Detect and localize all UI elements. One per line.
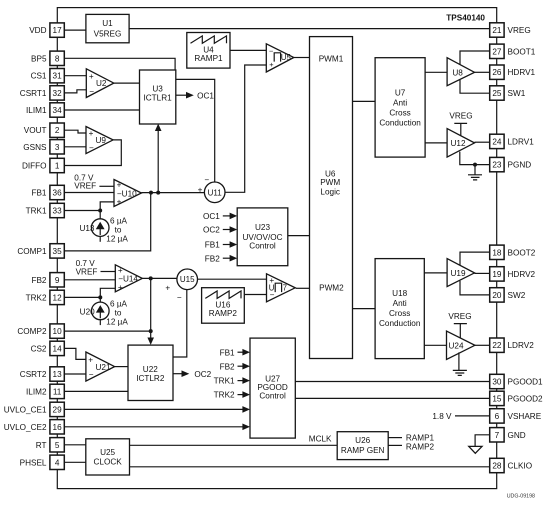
block U18 Anti Cross Conduction xyxy=(375,259,424,359)
svg-text:CS2: CS2 xyxy=(31,344,47,353)
svg-text:U13: U13 xyxy=(79,224,94,233)
pin HDRV2 19 xyxy=(490,267,536,281)
wire TRK2 input arrow to U27 xyxy=(214,391,250,400)
svg-text:2: 2 xyxy=(55,126,60,135)
block U6 PWM Logic xyxy=(310,37,353,359)
pin PGND 23 xyxy=(490,157,532,171)
svg-text:CSRT1: CSRT1 xyxy=(20,89,47,98)
pin VDD 17 xyxy=(29,23,64,37)
driver U12 xyxy=(447,129,474,158)
wire VOUT to U9 + xyxy=(64,130,86,133)
svg-text:26: 26 xyxy=(492,68,502,77)
svg-text:U9: U9 xyxy=(96,136,107,145)
svg-text:ILIM1: ILIM1 xyxy=(26,106,47,115)
wire 1.8V to VSHARE xyxy=(455,415,490,417)
wire U7 to U8 xyxy=(425,71,447,73)
pin FB1 36 xyxy=(31,185,64,199)
svg-text:12 µA: 12 µA xyxy=(106,318,128,327)
pin SW1 25 xyxy=(490,86,526,100)
svg-text:VSHARE: VSHARE xyxy=(508,412,542,421)
svg-text:1.8 V: 1.8 V xyxy=(432,412,452,421)
wire U18 to U19 xyxy=(424,272,447,274)
svg-text:RAMP GEN: RAMP GEN xyxy=(341,446,385,455)
svg-text:6: 6 xyxy=(495,412,500,421)
svg-text:TPS40140: TPS40140 xyxy=(446,14,485,23)
pin PGOOD2 15 xyxy=(490,391,543,405)
wire U8 output to HDRV1 xyxy=(475,71,490,73)
wire BP5 to U3 top xyxy=(64,58,175,70)
svg-text:U5: U5 xyxy=(281,53,292,62)
wire OC1 input arrow to U23 xyxy=(203,212,237,221)
svg-text:10: 10 xyxy=(53,327,63,336)
svg-text:HDRV2: HDRV2 xyxy=(508,270,536,279)
wire ILIM1 to U3 xyxy=(64,109,139,111)
wire U4 output to U5 - xyxy=(230,49,266,51)
svg-text:PWM: PWM xyxy=(320,178,340,187)
svg-text:TRK1: TRK1 xyxy=(214,377,235,386)
svg-text:U22: U22 xyxy=(143,365,158,374)
svg-text:+: + xyxy=(165,284,170,293)
wire COMP2 horizontal xyxy=(64,330,150,332)
node TRK2 junction xyxy=(98,295,102,299)
svg-text:VDD: VDD xyxy=(29,26,46,35)
wire U13 bottom to COMP1 line xyxy=(99,236,101,242)
svg-text:RAMP2: RAMP2 xyxy=(406,442,435,451)
pin CSRT1 32 xyxy=(20,86,65,100)
block U25 CLOCK xyxy=(86,439,130,475)
svg-text:VREG: VREG xyxy=(508,26,531,35)
svg-text:BP5: BP5 xyxy=(31,54,47,63)
pin CLKIO 28 xyxy=(490,458,532,472)
svg-text:34: 34 xyxy=(53,106,63,115)
ground (U24) xyxy=(453,370,467,375)
svg-text:−: − xyxy=(177,293,182,302)
svg-text:Conduction: Conduction xyxy=(379,319,421,328)
svg-text:RAMP1: RAMP1 xyxy=(194,54,223,63)
svg-text:14: 14 xyxy=(53,344,63,353)
svg-text:PGOOD1: PGOOD1 xyxy=(508,378,543,387)
pin PGOOD1 30 xyxy=(490,374,543,388)
summing node U11 xyxy=(198,176,225,203)
wire U5 output to U6 PWM1 xyxy=(294,57,310,59)
summing node U15 xyxy=(165,269,197,302)
block U27 PGOOD Control xyxy=(250,338,295,438)
pin GSNS 3 xyxy=(23,140,64,154)
wire OC2 output arrow xyxy=(173,370,189,377)
svg-text:6 µA: 6 µA xyxy=(110,300,128,309)
pin CS1 31 xyxy=(31,69,65,83)
svg-text:OC2: OC2 xyxy=(194,370,211,379)
wire U2 output to U3 xyxy=(114,82,140,84)
pin BOOT2 18 xyxy=(490,245,536,259)
svg-text:35: 35 xyxy=(53,247,63,256)
pin LDRV2 22 xyxy=(490,338,534,352)
wire TRK1 to U10 + (jog) xyxy=(64,202,114,211)
svg-text:29: 29 xyxy=(53,405,63,414)
svg-text:27: 27 xyxy=(492,47,502,56)
wire COMP2 to U22 (vertical, arrow into U22) xyxy=(147,278,154,345)
svg-text:−: − xyxy=(204,176,209,185)
wire U17 output to U6 PWM2 xyxy=(296,287,310,289)
wire U18 to U24 xyxy=(424,344,446,346)
block U7 Anti Cross Conduction xyxy=(375,58,425,157)
wire OC1 output arrow xyxy=(176,92,194,99)
svg-text:TRK2: TRK2 xyxy=(214,391,235,400)
svg-text:CS1: CS1 xyxy=(31,72,47,81)
ground arrow (GND pin) xyxy=(469,446,482,453)
pin TRK1 33 xyxy=(26,203,65,217)
svg-text:OC1: OC1 xyxy=(203,212,220,221)
svg-text:22: 22 xyxy=(492,341,502,350)
svg-text:Control: Control xyxy=(249,241,276,250)
PWM comparator U5 xyxy=(266,44,294,72)
svg-text:HDRV1: HDRV1 xyxy=(508,68,536,77)
svg-text:U7: U7 xyxy=(395,88,406,97)
wire U24 output to LDRV2 xyxy=(475,344,490,346)
svg-text:U26: U26 xyxy=(355,436,370,445)
svg-text:FB1: FB1 xyxy=(220,348,235,357)
svg-text:+: + xyxy=(117,198,122,207)
wire FB1 input arrow to U23 xyxy=(205,241,237,250)
wire MCLK U25 to U26 xyxy=(130,444,338,446)
pin RT 5 xyxy=(36,438,65,452)
wire U15 output to U17 + xyxy=(198,278,267,280)
wire U3 to U11 minus input xyxy=(176,79,215,182)
svg-text:1: 1 xyxy=(55,162,60,171)
svg-text:U2: U2 xyxy=(96,79,107,88)
driver U19 xyxy=(447,259,474,287)
svg-text:UDG-09198: UDG-09198 xyxy=(507,494,535,500)
svg-text:33: 33 xyxy=(53,207,63,216)
op-amp U2 xyxy=(86,69,114,98)
svg-text:12 µA: 12 µA xyxy=(106,234,128,243)
svg-text:U1: U1 xyxy=(102,19,113,28)
wire TRK1 input arrow to U27 xyxy=(214,377,250,386)
svg-text:U19: U19 xyxy=(451,269,466,278)
svg-text:U3: U3 xyxy=(152,85,163,94)
wire U23 output to U6 xyxy=(288,235,310,237)
label 6uA to 12uA (ch2) xyxy=(106,300,128,327)
svg-text:+: + xyxy=(269,60,273,69)
svg-text:CLOCK: CLOCK xyxy=(93,458,122,467)
svg-text:32: 32 xyxy=(53,89,63,98)
pin ILIM1 34 xyxy=(26,103,64,117)
wire RT to U25 xyxy=(64,444,86,446)
svg-text:RT: RT xyxy=(36,441,47,450)
wire U7 to U12 xyxy=(425,142,447,144)
wire BOOT1 to U8 top xyxy=(460,51,490,65)
wire U27 to PGOOD2 xyxy=(295,397,489,399)
svg-text:+: + xyxy=(198,186,203,195)
wire FB2 input arrow to U27 xyxy=(220,362,250,371)
svg-text:UVLO_CE2: UVLO_CE2 xyxy=(4,423,47,432)
wire U9 output to DIFFO xyxy=(64,140,121,166)
wire U6 to U7 xyxy=(353,100,376,102)
power VREG symbol (ch2) xyxy=(448,312,471,338)
svg-text:12: 12 xyxy=(53,293,63,302)
svg-text:7: 7 xyxy=(283,284,287,293)
block U3 ICTLR1 xyxy=(140,70,176,124)
svg-text:TRK1: TRK1 xyxy=(26,207,47,216)
node U10 output junction xyxy=(149,191,153,195)
wire CS2 to U21 + xyxy=(64,348,86,359)
svg-text:MCLK: MCLK xyxy=(309,435,332,444)
wire U20 bottom to COMP2 line xyxy=(99,320,101,326)
regulator U1 V5REG xyxy=(86,14,129,42)
svg-text:FB2: FB2 xyxy=(31,276,46,285)
svg-text:PWM2: PWM2 xyxy=(319,283,344,292)
ground (PGND) xyxy=(468,165,482,180)
pin VREG 21 xyxy=(490,23,531,37)
svg-text:ICTLR1: ICTLR1 xyxy=(143,93,172,102)
svg-text:TRK2: TRK2 xyxy=(26,293,47,302)
svg-text:21: 21 xyxy=(492,26,502,35)
pin COMP2 10 xyxy=(17,324,64,338)
svg-text:ILIM2: ILIM2 xyxy=(26,387,47,396)
svg-text:Conduction: Conduction xyxy=(379,118,421,127)
svg-text:GND: GND xyxy=(508,431,526,440)
node PGND junction xyxy=(473,163,477,167)
pin BOOT1 27 xyxy=(490,44,536,58)
pin VOUT 2 xyxy=(24,123,65,137)
pin HDRV1 26 xyxy=(490,65,536,79)
wire U10 output to U11 xyxy=(141,192,204,194)
error amp U14 xyxy=(115,265,142,292)
label 0.7 V VREF (ch1) xyxy=(74,174,96,191)
svg-text:V5REG: V5REG xyxy=(94,29,122,38)
svg-text:FB2: FB2 xyxy=(220,362,235,371)
wire U6 to U18 xyxy=(353,308,376,310)
wire VREF to U14 + xyxy=(101,271,116,273)
svg-text:−: − xyxy=(269,47,273,56)
svg-text:BOOT1: BOOT1 xyxy=(508,47,536,56)
pin UVLO_CE2 16 xyxy=(4,420,65,434)
svg-text:LDRV2: LDRV2 xyxy=(508,341,535,350)
svg-text:CLKIO: CLKIO xyxy=(508,462,533,471)
svg-text:GSNS: GSNS xyxy=(23,143,47,152)
svg-text:VREF: VREF xyxy=(76,268,98,277)
wire BOOT2 to U19 top xyxy=(460,252,490,266)
wire UVLO_CE1 to U27 (arrow) xyxy=(64,406,250,413)
wire FB1 to U10 - xyxy=(64,192,114,194)
svg-text:17: 17 xyxy=(53,26,63,35)
pin VSHARE 6 xyxy=(490,409,542,423)
wire CSRT1 to U2 - xyxy=(64,90,86,93)
block U26 RAMP GEN xyxy=(337,432,388,460)
svg-text:11: 11 xyxy=(53,387,62,396)
wire U12 output to LDRV1 xyxy=(475,141,490,143)
pin COMP1 35 xyxy=(17,244,64,258)
svg-text:VREF: VREF xyxy=(74,181,96,190)
svg-text:19: 19 xyxy=(492,270,502,279)
svg-text:−: − xyxy=(89,144,94,153)
svg-text:Logic: Logic xyxy=(320,187,340,196)
wire VDD to U1 xyxy=(64,29,86,31)
wire ILIM2 to U22 xyxy=(64,390,128,392)
svg-text:COMP1: COMP1 xyxy=(17,247,47,256)
svg-text:+: + xyxy=(89,72,94,81)
node COMP2 junction xyxy=(149,329,153,333)
pin UVLO_CE1 29 xyxy=(4,402,65,416)
PWM comparator U17 xyxy=(267,274,296,302)
error amp U10 xyxy=(114,180,141,207)
wire FB1 input arrow to U27 xyxy=(220,348,250,357)
svg-text:PHSEL: PHSEL xyxy=(20,458,47,467)
svg-text:Cross: Cross xyxy=(389,309,410,318)
svg-text:7: 7 xyxy=(495,431,500,440)
wire U13 top stub xyxy=(99,211,101,219)
svg-text:24: 24 xyxy=(492,137,502,146)
wire U12 bottom to PGND xyxy=(460,152,490,165)
svg-text:CSRT2: CSRT2 xyxy=(20,370,47,379)
svg-text:U27: U27 xyxy=(265,374,280,383)
svg-text:15: 15 xyxy=(492,394,502,403)
svg-text:6 µA: 6 µA xyxy=(110,216,128,225)
ramp generator U4 RAMP1 xyxy=(187,33,230,69)
svg-text:OC2: OC2 xyxy=(203,226,220,235)
ramp generator U16 RAMP2 xyxy=(202,288,245,324)
svg-text:to: to xyxy=(115,309,122,318)
svg-text:RAMP2: RAMP2 xyxy=(209,309,238,318)
svg-text:U25: U25 xyxy=(100,448,115,457)
wire UVLO_CE2 to U27 (arrow) xyxy=(64,424,250,431)
pin ILIM2 11 xyxy=(26,384,64,398)
op-amp U21 xyxy=(86,352,115,381)
svg-text:PWM1: PWM1 xyxy=(319,55,344,64)
svg-text:Anti: Anti xyxy=(393,98,407,107)
svg-text:DIFFO: DIFFO xyxy=(22,162,47,171)
svg-text:Control: Control xyxy=(259,392,286,401)
block U22 ICTLR2 xyxy=(128,345,173,400)
pin CS2 14 xyxy=(31,341,65,355)
svg-text:4: 4 xyxy=(55,458,60,467)
svg-text:PGOOD: PGOOD xyxy=(257,383,288,392)
wire OC2 input arrow to U23 xyxy=(203,226,237,235)
chip outline TPS40140 xyxy=(57,8,496,489)
svg-text:U12: U12 xyxy=(451,139,466,148)
svg-text:20: 20 xyxy=(492,291,502,300)
wire RAMP2 stub xyxy=(388,444,402,446)
svg-text:U: U xyxy=(269,284,275,293)
svg-text:UVLO_CE1: UVLO_CE1 xyxy=(4,405,47,414)
svg-text:U20: U20 xyxy=(80,308,95,317)
wire U27 to PGOOD1 xyxy=(295,381,489,383)
svg-text:28: 28 xyxy=(492,462,502,471)
pin TRK2 12 xyxy=(26,290,65,304)
svg-text:VREG: VREG xyxy=(448,312,471,321)
svg-text:+: + xyxy=(118,283,123,292)
current source U13 xyxy=(79,219,109,237)
current source U20 xyxy=(80,302,109,320)
svg-text:U18: U18 xyxy=(392,289,407,298)
svg-text:+: + xyxy=(88,356,93,365)
svg-text:FB1: FB1 xyxy=(31,189,46,198)
svg-text:U21: U21 xyxy=(96,363,111,372)
svg-text:U8: U8 xyxy=(452,69,463,78)
pin BP5 8 xyxy=(31,51,64,65)
pin GND 7 xyxy=(490,428,526,442)
svg-text:5: 5 xyxy=(55,441,60,450)
svg-text:to: to xyxy=(115,225,122,234)
svg-text:PGOOD2: PGOOD2 xyxy=(508,394,543,403)
wire U16 output to U17 - xyxy=(244,294,266,296)
node U3 feedback junction xyxy=(156,191,160,195)
svg-text:36: 36 xyxy=(53,189,63,198)
svg-text:COMP2: COMP2 xyxy=(17,327,47,336)
svg-text:SW2: SW2 xyxy=(508,291,526,300)
svg-text:Anti: Anti xyxy=(393,299,407,308)
svg-text:BOOT2: BOOT2 xyxy=(508,248,536,257)
svg-text:VREG: VREG xyxy=(449,111,472,120)
svg-text:SW1: SW1 xyxy=(508,89,526,98)
pin FB2 9 xyxy=(31,273,64,287)
wire FB2 to U14 - xyxy=(64,279,115,281)
svg-text:−: − xyxy=(89,370,94,379)
svg-text:OC1: OC1 xyxy=(197,91,214,100)
wire RAMP1 stub xyxy=(388,437,402,439)
wire GSNS to U9 - xyxy=(64,146,86,148)
svg-text:18: 18 xyxy=(492,248,502,257)
wire COMP1 to U10 output junction xyxy=(64,193,150,251)
svg-text:30: 30 xyxy=(492,378,502,387)
wire U21 output to U22 xyxy=(115,366,128,368)
svg-text:U23: U23 xyxy=(255,223,270,232)
svg-text:U11: U11 xyxy=(208,188,223,197)
svg-text:16: 16 xyxy=(53,423,63,432)
svg-text:ICTLR2: ICTLR2 xyxy=(136,374,165,383)
svg-text:31: 31 xyxy=(53,72,63,81)
svg-text:0.7 V: 0.7 V xyxy=(76,259,96,268)
svg-text:VOUT: VOUT xyxy=(24,126,47,135)
wire junction up into U3 bottom (arrow) xyxy=(155,124,162,193)
svg-text:FB1: FB1 xyxy=(205,241,220,250)
wire PHSEL to U25 xyxy=(64,461,86,463)
svg-text:23: 23 xyxy=(492,161,502,170)
driver U24 xyxy=(447,331,475,359)
svg-text:U24: U24 xyxy=(449,341,464,350)
svg-text:13: 13 xyxy=(53,370,63,379)
svg-text:Cross: Cross xyxy=(389,108,410,117)
pin SW2 20 xyxy=(490,288,526,302)
svg-text:−: − xyxy=(89,87,94,96)
svg-text:25: 25 xyxy=(492,89,502,98)
wire U1 output to pin VREG xyxy=(129,28,490,30)
wire U8 bottom to SW1 xyxy=(460,80,490,93)
label 0.7 V VREF (ch2) xyxy=(76,259,98,277)
svg-text:+: + xyxy=(117,181,122,190)
wire CSRT2 to U21 - xyxy=(64,373,86,375)
svg-text:LDRV1: LDRV1 xyxy=(508,137,535,146)
svg-text:PGND: PGND xyxy=(508,161,532,170)
svg-text:9: 9 xyxy=(55,276,60,285)
node TRK1 junction xyxy=(98,209,102,213)
wire FB2 input arrow to U23 xyxy=(205,254,237,263)
label 6uA to 12uA (ch1) xyxy=(106,216,128,243)
wire TRK2 to U14 + (jog) xyxy=(64,288,115,297)
wire U24 bottom to ground xyxy=(458,352,460,370)
op-amp U9 xyxy=(86,127,113,154)
power VREG symbol (ch1) xyxy=(449,111,472,135)
block U23 UV/OV/OC Control xyxy=(237,208,288,266)
driver U8 xyxy=(447,58,474,86)
node U14 output junction xyxy=(149,276,153,280)
pin PHSEL 4 xyxy=(20,455,65,469)
wire U25 CLKIO output to pin 28 xyxy=(130,466,490,468)
svg-text:3: 3 xyxy=(55,143,60,152)
wire U11 output up to U5 + xyxy=(225,65,266,192)
wire U14 output to U15 xyxy=(142,277,177,279)
wire U19 output to HDRV2 xyxy=(475,272,490,274)
